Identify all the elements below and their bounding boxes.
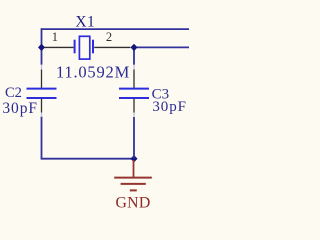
wire bottom horizontal [41, 158, 134, 160]
ground bar 2 [121, 183, 146, 185]
capacitor C2 bottom pin faint tail [41, 113, 43, 118]
capacitor C3 top pin [133, 70, 135, 89]
ground bar 1 [114, 177, 152, 179]
capacitor C2 top pin [41, 70, 43, 89]
svg-text:11.0592M: 11.0592M [56, 63, 130, 82]
capacitor C3 bottom pin faint tail [133, 113, 135, 118]
wire left column lower [41, 117, 43, 159]
svg-text:C2: C2 [5, 85, 22, 101]
crystal X1 left plate [74, 40, 76, 54]
junction node at X1 pin1 [38, 44, 45, 51]
wire pin2 to right edge [134, 46, 189, 48]
capacitor C2 top plate [27, 88, 57, 90]
capacitor C2 bottom pin [41, 99, 43, 113]
crystal X1 pin 1 lead [44, 46, 74, 48]
crystal X1 pin 2 lead [94, 46, 130, 48]
capacitor C3 top pin faint tail [133, 65, 135, 70]
svg-text:30pF: 30pF [2, 100, 37, 117]
wire left riser [41, 28, 43, 47]
crystal X1 body rectangle [79, 36, 89, 59]
svg-text:1: 1 [52, 30, 58, 44]
svg-text:X1: X1 [75, 14, 95, 31]
wire left column upper [41, 47, 43, 64]
junction node at X1 pin2 [131, 44, 138, 51]
wire C3 bottom to bottom rail [133, 117, 135, 159]
capacitor C3 top plate [119, 88, 149, 90]
ground stem [133, 160, 135, 178]
wire right column upper [133, 47, 135, 64]
ground bar 3 [130, 189, 137, 191]
capacitor C3 bottom pin [133, 99, 135, 113]
capacitor C2 bottom plate [27, 97, 57, 99]
sheet background [0, 0, 189, 220]
crystal X1 right plate [92, 40, 94, 54]
capacitor C3 bottom plate [119, 97, 149, 99]
capacitor C2 top pin faint tail [41, 65, 43, 70]
svg-text:2: 2 [106, 30, 112, 44]
svg-text:GND: GND [115, 194, 150, 211]
svg-text:30pF: 30pF [152, 99, 186, 115]
junction node at ground [131, 155, 138, 162]
wire top horizontal [42, 28, 190, 30]
